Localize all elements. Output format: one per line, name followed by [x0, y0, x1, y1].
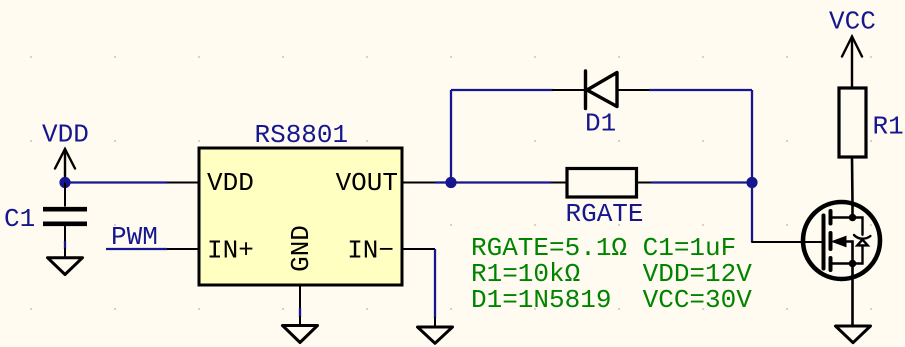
- wire junction down to gate: [751, 183, 753, 243]
- label R1: [873, 112, 904, 142]
- ground symbol below C1: [48, 249, 83, 275]
- ground symbol below IC: [283, 317, 318, 343]
- junction node right: [746, 177, 757, 188]
- svg-text:D1=1N5819 VCC=30V: D1=1N5819 VCC=30V: [471, 285, 752, 315]
- wire RGATE to right junction: [651, 181, 752, 183]
- wire top left to diode: [451, 89, 553, 91]
- svg-text:IN+: IN+: [207, 236, 254, 266]
- label VCC (right power net): [829, 7, 876, 37]
- ground symbol below IN-: [418, 318, 453, 343]
- svg-text:VOUT: VOUT: [336, 168, 398, 198]
- svg-text:RS8801: RS8801: [255, 120, 349, 150]
- label RS8801: [255, 120, 349, 150]
- label RGATE: [566, 199, 644, 229]
- IC RS8801 body: [199, 148, 402, 285]
- svg-text:C1: C1: [4, 204, 35, 234]
- IC pin VOUT (right top): [336, 168, 435, 198]
- transistor Q1 N-MOSFET: [752, 202, 880, 326]
- svg-text:VDD: VDD: [42, 120, 89, 150]
- power symbol VDD arrow: [55, 149, 75, 183]
- IC pin GND (bottom): [286, 225, 316, 308]
- label C1: [4, 204, 35, 234]
- IC pin IN- (right bottom): [347, 236, 435, 266]
- values text block: [471, 233, 752, 315]
- wire junction up to diode branch: [450, 90, 452, 183]
- junction node at VDD/C1: [59, 177, 70, 188]
- label D1: [585, 109, 616, 139]
- wire C1 junction to U1 VDD pin: [65, 181, 167, 183]
- net label PWM: [111, 222, 158, 252]
- svg-text:VCC: VCC: [829, 7, 876, 37]
- wire top right corner down to junction: [751, 90, 753, 183]
- wire PWM to U1 IN+ pin: [106, 248, 167, 250]
- wire diode to top right corner: [649, 89, 752, 91]
- svg-text:IN−: IN−: [347, 236, 394, 266]
- IC pin IN+ (left bottom): [167, 236, 254, 266]
- capacitor C1: [43, 183, 87, 242]
- wire VOUT junction to RGATE: [451, 181, 551, 183]
- diode D1: [553, 71, 649, 109]
- ground symbol below Q1: [836, 326, 871, 343]
- svg-text:D1: D1: [585, 109, 616, 139]
- resistor RGATE: [551, 169, 651, 198]
- svg-text:RGATE: RGATE: [566, 199, 644, 229]
- label VDD (left power net): [42, 120, 89, 150]
- svg-text:R1: R1: [873, 112, 904, 142]
- wire C1 to ground: [64, 241, 66, 249]
- power symbol VCC arrow: [842, 37, 862, 89]
- svg-text:VDD: VDD: [207, 168, 254, 198]
- wire GND pin to ground: [299, 308, 301, 317]
- wire VOUT pin to junction: [435, 181, 451, 183]
- junction node at VOUT: [445, 177, 456, 188]
- resistor R1: [839, 88, 866, 218]
- svg-text:GND: GND: [286, 225, 316, 272]
- IC pin VDD (left top): [167, 168, 254, 198]
- grid dots: [30, 56, 872, 310]
- wire IN- to ground: [434, 249, 436, 318]
- svg-text:PWM: PWM: [111, 222, 158, 252]
